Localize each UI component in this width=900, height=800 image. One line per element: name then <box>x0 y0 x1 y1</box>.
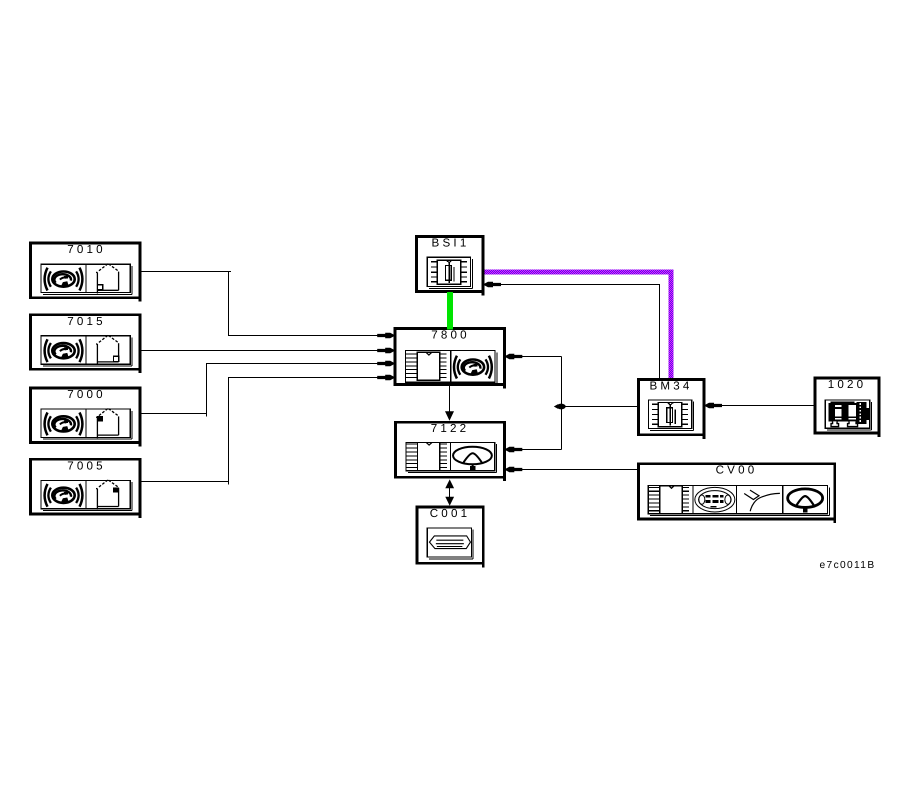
component box 7000 (wheel speed sensor front) <box>30 388 140 447</box>
arrow into 7122 right side (upper) <box>506 447 523 452</box>
svg-text:7005: 7005 <box>67 459 106 472</box>
svg-text:7015: 7015 <box>67 315 106 328</box>
svg-text:BSI1: BSI1 <box>432 237 470 250</box>
component box 1020 (engine) <box>815 378 879 437</box>
arrow into BM34 right side <box>706 403 723 408</box>
arrow into 7800 pin 2 <box>377 348 394 353</box>
svg-text:1020: 1020 <box>828 378 867 391</box>
wire 7015 to 7800 (pin 2) <box>141 350 379 352</box>
wire 7800 to 7122 with down arrow <box>449 386 451 413</box>
arrow into BSI1 right side <box>485 282 502 287</box>
component box BM34 (engine fuse box) <box>638 379 704 439</box>
wire node A to 7122 <box>515 449 562 451</box>
arrow into 7800 pin 3 <box>377 361 394 366</box>
wire 7000 to 7800 (pin 3) <box>141 364 379 414</box>
double arrow 7122 to C001 <box>449 485 451 500</box>
junction node A <box>557 404 566 410</box>
component box 7010 (wheel speed sensor rear) <box>30 243 140 302</box>
purple VAN bus BSI1 to BM34 <box>484 270 674 275</box>
component box 7122 (instrument panel) <box>395 422 504 481</box>
wire 1020 to BM34 <box>714 405 814 407</box>
svg-text:7000: 7000 <box>67 388 106 401</box>
component box 7800 (ABS ECU) <box>395 328 504 388</box>
wire corner tails <box>207 272 232 485</box>
svg-text:CV00: CV00 <box>716 464 758 477</box>
wire BM34 to BSI1 <box>489 285 660 379</box>
wire node A vertical <box>561 357 563 450</box>
arrow into 7122 right side (lower) <box>506 467 523 472</box>
wire 7010 to 7800 (pin 1) <box>141 272 379 336</box>
svg-text:e7c0011B: e7c0011B <box>820 560 876 571</box>
wire 7005 to 7800 (pin 4) <box>141 378 379 482</box>
component box 7015 (wheel speed sensor rear) <box>30 315 140 373</box>
svg-text:7800: 7800 <box>431 328 470 341</box>
arrow into 7800 right side <box>506 354 523 359</box>
component box 7005 (wheel speed sensor front) <box>30 459 140 518</box>
wire 7800 right to node A <box>506 356 562 358</box>
wire CV00 to 7122 <box>515 469 638 471</box>
arrow into 7800 pin 4 <box>377 375 394 380</box>
svg-text:7010: 7010 <box>67 243 106 256</box>
component box C001 (diagnostic connector) <box>417 507 483 567</box>
svg-text:7122: 7122 <box>431 422 470 435</box>
component box BSI1 (body control unit) <box>416 237 483 296</box>
wire node A to BM34 <box>562 406 639 408</box>
arrow into 7800 pin 1 <box>377 333 394 338</box>
svg-text:BM34: BM34 <box>649 379 692 392</box>
svg-text:C001: C001 <box>430 507 471 520</box>
component box CV00 (steering column controls) <box>639 464 835 523</box>
green wire BSI1 to 7800 <box>447 292 453 330</box>
